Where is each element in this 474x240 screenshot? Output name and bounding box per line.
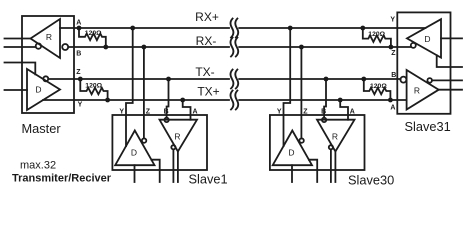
svg-text:Z: Z: [146, 108, 151, 115]
wire master D input: [5, 89, 28, 91]
wire master R enable: [5, 46, 36, 48]
bubble slave1 D output Z: [142, 138, 146, 142]
junction dot slave1 B: [166, 77, 171, 82]
break symbol RX-: [230, 38, 233, 57]
junction dot slave30 A: [338, 98, 343, 103]
bubble master R input B: [62, 44, 68, 50]
driver D of master: [27, 69, 60, 110]
junction dot right resistor Z: [389, 45, 394, 50]
bubble slave30 R enable: [329, 145, 333, 149]
wire slave30 A tap: [340, 100, 348, 120]
svg-text:R: R: [332, 131, 338, 141]
wire RX- bus right segment to Slave31 Z: [239, 46, 411, 48]
wire slave31 D input: [441, 37, 462, 39]
svg-text:D: D: [35, 85, 41, 95]
svg-text:A: A: [350, 108, 355, 115]
receiver R of slave30: [317, 120, 355, 152]
svg-text:Transmiter/Reciver: Transmiter/Reciver: [12, 173, 112, 185]
svg-text:A: A: [76, 19, 81, 26]
bubble master D output Z: [43, 76, 48, 81]
wire slave1 D input: [134, 165, 136, 182]
svg-text:R: R: [414, 86, 420, 96]
wire slave1 D enable: [151, 160, 159, 182]
wire slave30 D enable: [309, 160, 317, 182]
wire slave31 D enable: [437, 55, 462, 67]
svg-text:B: B: [164, 108, 169, 115]
bubble slave30 D output Z: [299, 138, 303, 142]
driver D of slave1: [115, 131, 154, 166]
wire slave30 Y tap: [284, 28, 291, 146]
wire master D enable: [5, 63, 36, 75]
svg-text:Master: Master: [22, 121, 62, 136]
svg-text:TX-: TX-: [195, 65, 214, 79]
svg-text:Slave1: Slave1: [189, 172, 228, 187]
wire RX+ bus left segment (node A of master): [60, 27, 229, 29]
resistor 120ohm TX termination at master: [80, 79, 107, 100]
svg-text:B: B: [321, 108, 326, 115]
junction dot slave1 Z: [142, 45, 147, 50]
bubble slave30 R input B: [322, 118, 326, 122]
svg-text:Z: Z: [303, 108, 308, 115]
wire slave30 R output: [330, 149, 332, 182]
break symbol TX-: [230, 70, 233, 89]
svg-text:R: R: [46, 32, 52, 42]
wire slave30 R second output: [334, 152, 336, 183]
driver D of slave31: [407, 19, 441, 57]
wire RX+ bus right segment to Slave31 Y: [239, 27, 425, 29]
Slave31 box: [397, 12, 450, 113]
svg-text:B: B: [391, 72, 396, 79]
wire slave1 B tap: [167, 79, 169, 118]
svg-text:R: R: [174, 131, 180, 141]
wire slave1 R second output: [177, 152, 179, 183]
resistor 120ohm RX termination at slave31: [363, 28, 391, 47]
wire slave30 B tap: [324, 79, 326, 118]
wire TX+ bus right segment to Slave31 A: [239, 99, 406, 101]
junction dot B-resistor: [103, 45, 108, 50]
wire slave30 Z tap: [300, 47, 302, 138]
svg-text:Slave31: Slave31: [405, 119, 451, 134]
bubble slave31 R enable: [427, 78, 432, 83]
resistor 120ohm RX termination at master: [79, 28, 106, 47]
svg-text:Z: Z: [391, 50, 396, 57]
Slave1 box: [112, 115, 207, 170]
wire TX- bus left segment (node Z of master): [48, 78, 229, 80]
junction dot right resistor B: [361, 77, 366, 82]
junction dot slave30 Z: [299, 45, 304, 50]
wire RX- bus left segment (node B of master): [68, 46, 229, 48]
svg-text:Y: Y: [78, 101, 83, 108]
svg-text:D: D: [288, 148, 294, 158]
receiver R of master: [31, 19, 61, 58]
resistor 120ohm TX termination at slave31: [364, 79, 391, 100]
junction dot slave30 Y: [288, 26, 293, 31]
junction dot slave1 A: [180, 98, 185, 103]
svg-text:120Ω: 120Ω: [370, 83, 387, 90]
wire slave31 R enable stub: [432, 79, 462, 81]
svg-text:B: B: [76, 50, 81, 57]
junction dot A-resistor: [77, 26, 82, 31]
bubble slave31 R input B: [400, 77, 406, 83]
receiver R of slave31: [407, 70, 439, 110]
svg-text:Slave30: Slave30: [348, 173, 394, 188]
bubble master R enable: [36, 43, 41, 48]
svg-text:Y: Y: [390, 17, 395, 24]
svg-text:A: A: [193, 108, 198, 115]
junction dot slave30 B: [324, 77, 329, 82]
svg-text:D: D: [131, 148, 137, 158]
svg-text:Y: Y: [277, 108, 282, 115]
wire master R output: [5, 38, 31, 40]
svg-text:Z: Z: [76, 69, 81, 76]
svg-text:max.32: max.32: [20, 160, 56, 172]
svg-text:RX+: RX+: [195, 10, 219, 24]
wire TX- bus right segment to Slave31 B: [239, 78, 400, 80]
svg-text:120Ω: 120Ω: [85, 30, 102, 37]
junction dot right resistor Y: [360, 26, 365, 31]
bubble slave1 R input B: [164, 118, 168, 122]
wire slave1 Y tap: [126, 28, 133, 146]
break symbol RX+: [230, 19, 233, 38]
bubble slave1 R enable: [171, 145, 175, 149]
wire slave1 R output: [172, 149, 174, 182]
wire slave1 Z tap: [143, 47, 145, 138]
svg-text:A: A: [390, 104, 395, 111]
junction dot Y-resistor: [105, 98, 110, 103]
svg-text:TX+: TX+: [197, 85, 219, 99]
wire slave30 D input: [291, 165, 293, 182]
junction dot Z-resistor: [78, 77, 83, 82]
break symbol TX+: [230, 91, 233, 110]
svg-text:120Ω: 120Ω: [368, 31, 385, 38]
Master box: [22, 16, 74, 113]
svg-text:RX-: RX-: [196, 34, 217, 48]
junction dot right resistor A: [388, 98, 393, 103]
wire TX+ bus left segment (node Y of master): [43, 99, 229, 101]
svg-text:Y: Y: [119, 108, 124, 115]
wire slave1 A tap: [183, 100, 191, 120]
bubble slave31 D output Z: [411, 43, 416, 48]
driver D of slave30: [273, 131, 312, 166]
svg-text:120Ω: 120Ω: [85, 82, 102, 89]
wire slave31 R output: [439, 89, 462, 91]
junction dot slave1 Y: [130, 26, 135, 31]
Slave30 box: [270, 115, 365, 170]
svg-text:D: D: [424, 34, 430, 44]
receiver R of slave1: [160, 120, 198, 152]
